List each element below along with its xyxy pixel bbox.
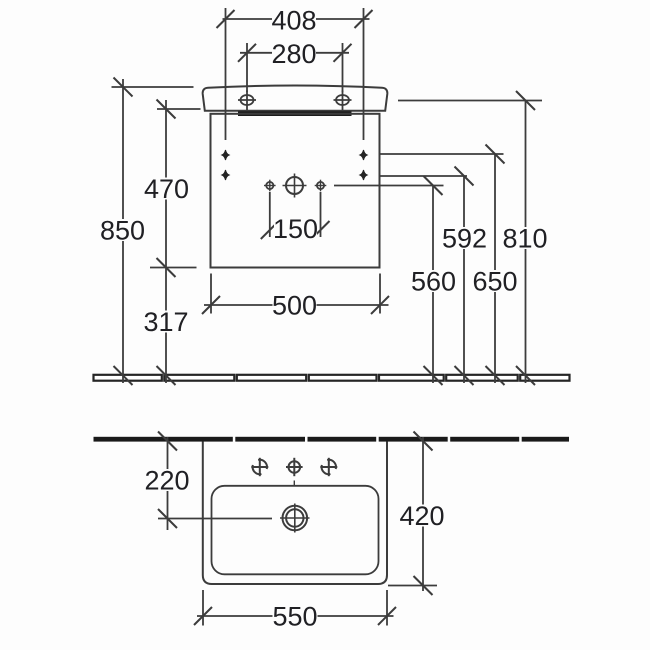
tick 150 left — [261, 221, 279, 239]
tick 550 left — [194, 607, 212, 625]
cabinet outline — [211, 114, 380, 268]
label 500 — [273, 294, 317, 316]
label 550 — [273, 605, 318, 627]
hinge mark bottom-left — [222, 170, 229, 180]
tick 560 top — [424, 176, 443, 195]
extension line 280 left — [246, 43, 248, 92]
reference line 220 (drain) — [158, 518, 272, 520]
reference line 650 — [380, 153, 504, 155]
basin outer outline (plan) — [203, 442, 387, 585]
tick 420 bottom — [414, 576, 433, 595]
tick 810 floor — [516, 366, 535, 385]
washbasin front profile — [203, 86, 388, 111]
label 408 — [272, 8, 316, 30]
drain (plan) — [280, 504, 310, 533]
reference line 470 top — [157, 108, 201, 110]
svg-text:408: 408 — [271, 5, 316, 35]
vertical dim line 592 — [463, 176, 465, 383]
extension line 280 right — [342, 43, 344, 92]
reference line cabinet bottom — [150, 267, 197, 269]
tick 500 right — [371, 296, 389, 314]
label 810 — [503, 227, 548, 249]
joint dark bar — [238, 111, 352, 116]
label 650 — [473, 270, 518, 292]
svg-text:550: 550 — [272, 601, 317, 631]
hinge mark top-left — [222, 150, 229, 160]
dimension 850 vertical line — [122, 79, 124, 383]
svg-text:650: 650 — [472, 266, 517, 296]
tick 408 right — [355, 10, 373, 28]
dimension 500 line — [204, 304, 389, 306]
tick 592 top — [455, 167, 474, 186]
dimension 550 line — [197, 615, 394, 617]
dimension 550 extension right — [386, 590, 388, 626]
dimension 408 line — [223, 18, 370, 20]
wall line (plan view) — [94, 437, 570, 442]
faucet hole middle (plan) — [286, 458, 303, 476]
label 850 — [100, 219, 145, 241]
dimension 280 line — [240, 52, 349, 54]
dimension 500 extension right — [379, 274, 381, 314]
extension line 408 right — [363, 8, 365, 140]
tick 650 top — [486, 145, 505, 164]
label 420 — [400, 505, 445, 527]
tick 470 bottom — [157, 258, 176, 277]
reference line 420 bottom — [388, 585, 437, 587]
tick 850 top — [114, 78, 133, 97]
dimension 420 vertical line — [422, 437, 424, 591]
dimension 150 extension right — [320, 192, 322, 237]
hinge mark top-right — [360, 150, 367, 160]
label 592 — [442, 227, 487, 249]
tick 220 top — [158, 432, 177, 451]
label 280 — [272, 42, 316, 64]
label 317 — [144, 311, 189, 333]
small hole left front — [264, 180, 276, 192]
tick 280 right — [334, 44, 352, 62]
tick 220 bottom — [158, 509, 177, 528]
reference line 810 — [398, 100, 542, 102]
drain circle front — [283, 174, 307, 198]
label 560 — [411, 270, 456, 292]
faucet hole right (front) — [334, 91, 352, 112]
dimension 150 extension left — [269, 192, 271, 237]
dimension 500 extension left — [210, 274, 212, 314]
tick 650 floor — [486, 366, 505, 385]
tick 408 left — [217, 10, 235, 28]
floor line (front view) — [94, 375, 570, 381]
tick 550 right — [378, 607, 396, 625]
dimension 470/317 vertical line — [165, 100, 167, 383]
reference line 592 — [380, 175, 467, 177]
svg-text:317: 317 — [143, 307, 188, 337]
label 220 — [145, 469, 190, 491]
dimension 550 extension left — [202, 590, 204, 626]
svg-text:150: 150 — [273, 214, 318, 244]
tick 280 left — [238, 44, 256, 62]
vertical dim line 560 — [432, 186, 434, 384]
tick 470 top — [157, 100, 176, 119]
knockout hole left (plan) — [251, 458, 268, 476]
faucet hole left (front) — [238, 91, 256, 112]
svg-text:420: 420 — [399, 501, 444, 531]
svg-text:470: 470 — [144, 174, 189, 204]
text labels with white backing — [100, 5, 548, 631]
reference line 850 top — [112, 86, 194, 88]
svg-text:592: 592 — [442, 223, 487, 253]
svg-text:220: 220 — [144, 465, 189, 495]
svg-text:500: 500 — [272, 290, 317, 320]
tick 420 top — [414, 432, 433, 451]
tick 317 bottom — [157, 366, 176, 385]
extension line 408 left — [225, 8, 227, 140]
tick 150 right — [312, 221, 330, 239]
vertical dim line 650 — [494, 154, 496, 383]
basin inner outline (plan) — [212, 486, 379, 575]
label 470 — [144, 178, 189, 200]
small hole right front — [315, 180, 327, 192]
svg-text:280: 280 — [271, 39, 316, 69]
svg-text:560: 560 — [411, 266, 456, 296]
label 150 — [274, 218, 317, 240]
tick 592 floor — [455, 366, 474, 385]
tick 810 top — [516, 91, 535, 110]
svg-text:810: 810 — [502, 223, 547, 253]
svg-text:850: 850 — [100, 215, 145, 245]
knockout hole right (plan) — [320, 458, 337, 476]
dimension 220 vertical line — [167, 437, 169, 530]
vertical dim line 810 — [525, 101, 527, 384]
tick 560 floor — [424, 366, 443, 385]
tick 850 bottom — [114, 366, 133, 385]
reference line 560 (drain height) — [334, 185, 444, 187]
hinge mark bottom-right — [360, 170, 367, 180]
center mark inner top — [293, 481, 295, 487]
tick 500 left — [202, 296, 220, 314]
